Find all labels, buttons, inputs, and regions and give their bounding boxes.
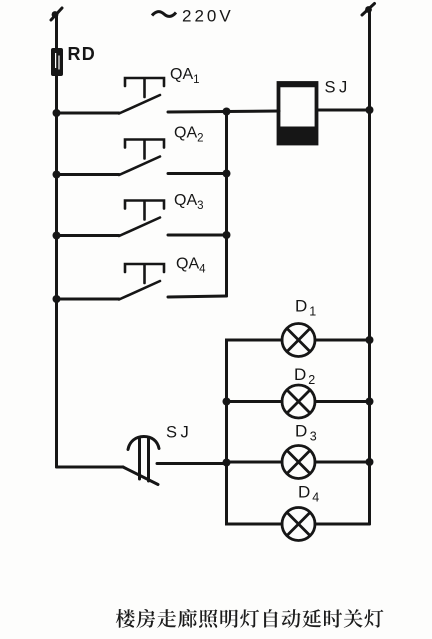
svg-text:220V: 220V (182, 7, 234, 26)
svg-text:RD: RD (68, 44, 96, 64)
svg-text:QA3: QA3 (174, 192, 204, 212)
svg-text:QA1: QA1 (170, 66, 200, 86)
svg-text:QA2: QA2 (174, 125, 204, 145)
svg-text:SJ: SJ (166, 424, 192, 442)
svg-text:D1: D1 (295, 297, 316, 319)
svg-text:D3: D3 (295, 422, 317, 444)
svg-text:D2: D2 (294, 365, 315, 387)
svg-text:QA4: QA4 (176, 256, 206, 276)
svg-text:SJ: SJ (325, 79, 351, 97)
svg-text:D4: D4 (298, 483, 319, 505)
